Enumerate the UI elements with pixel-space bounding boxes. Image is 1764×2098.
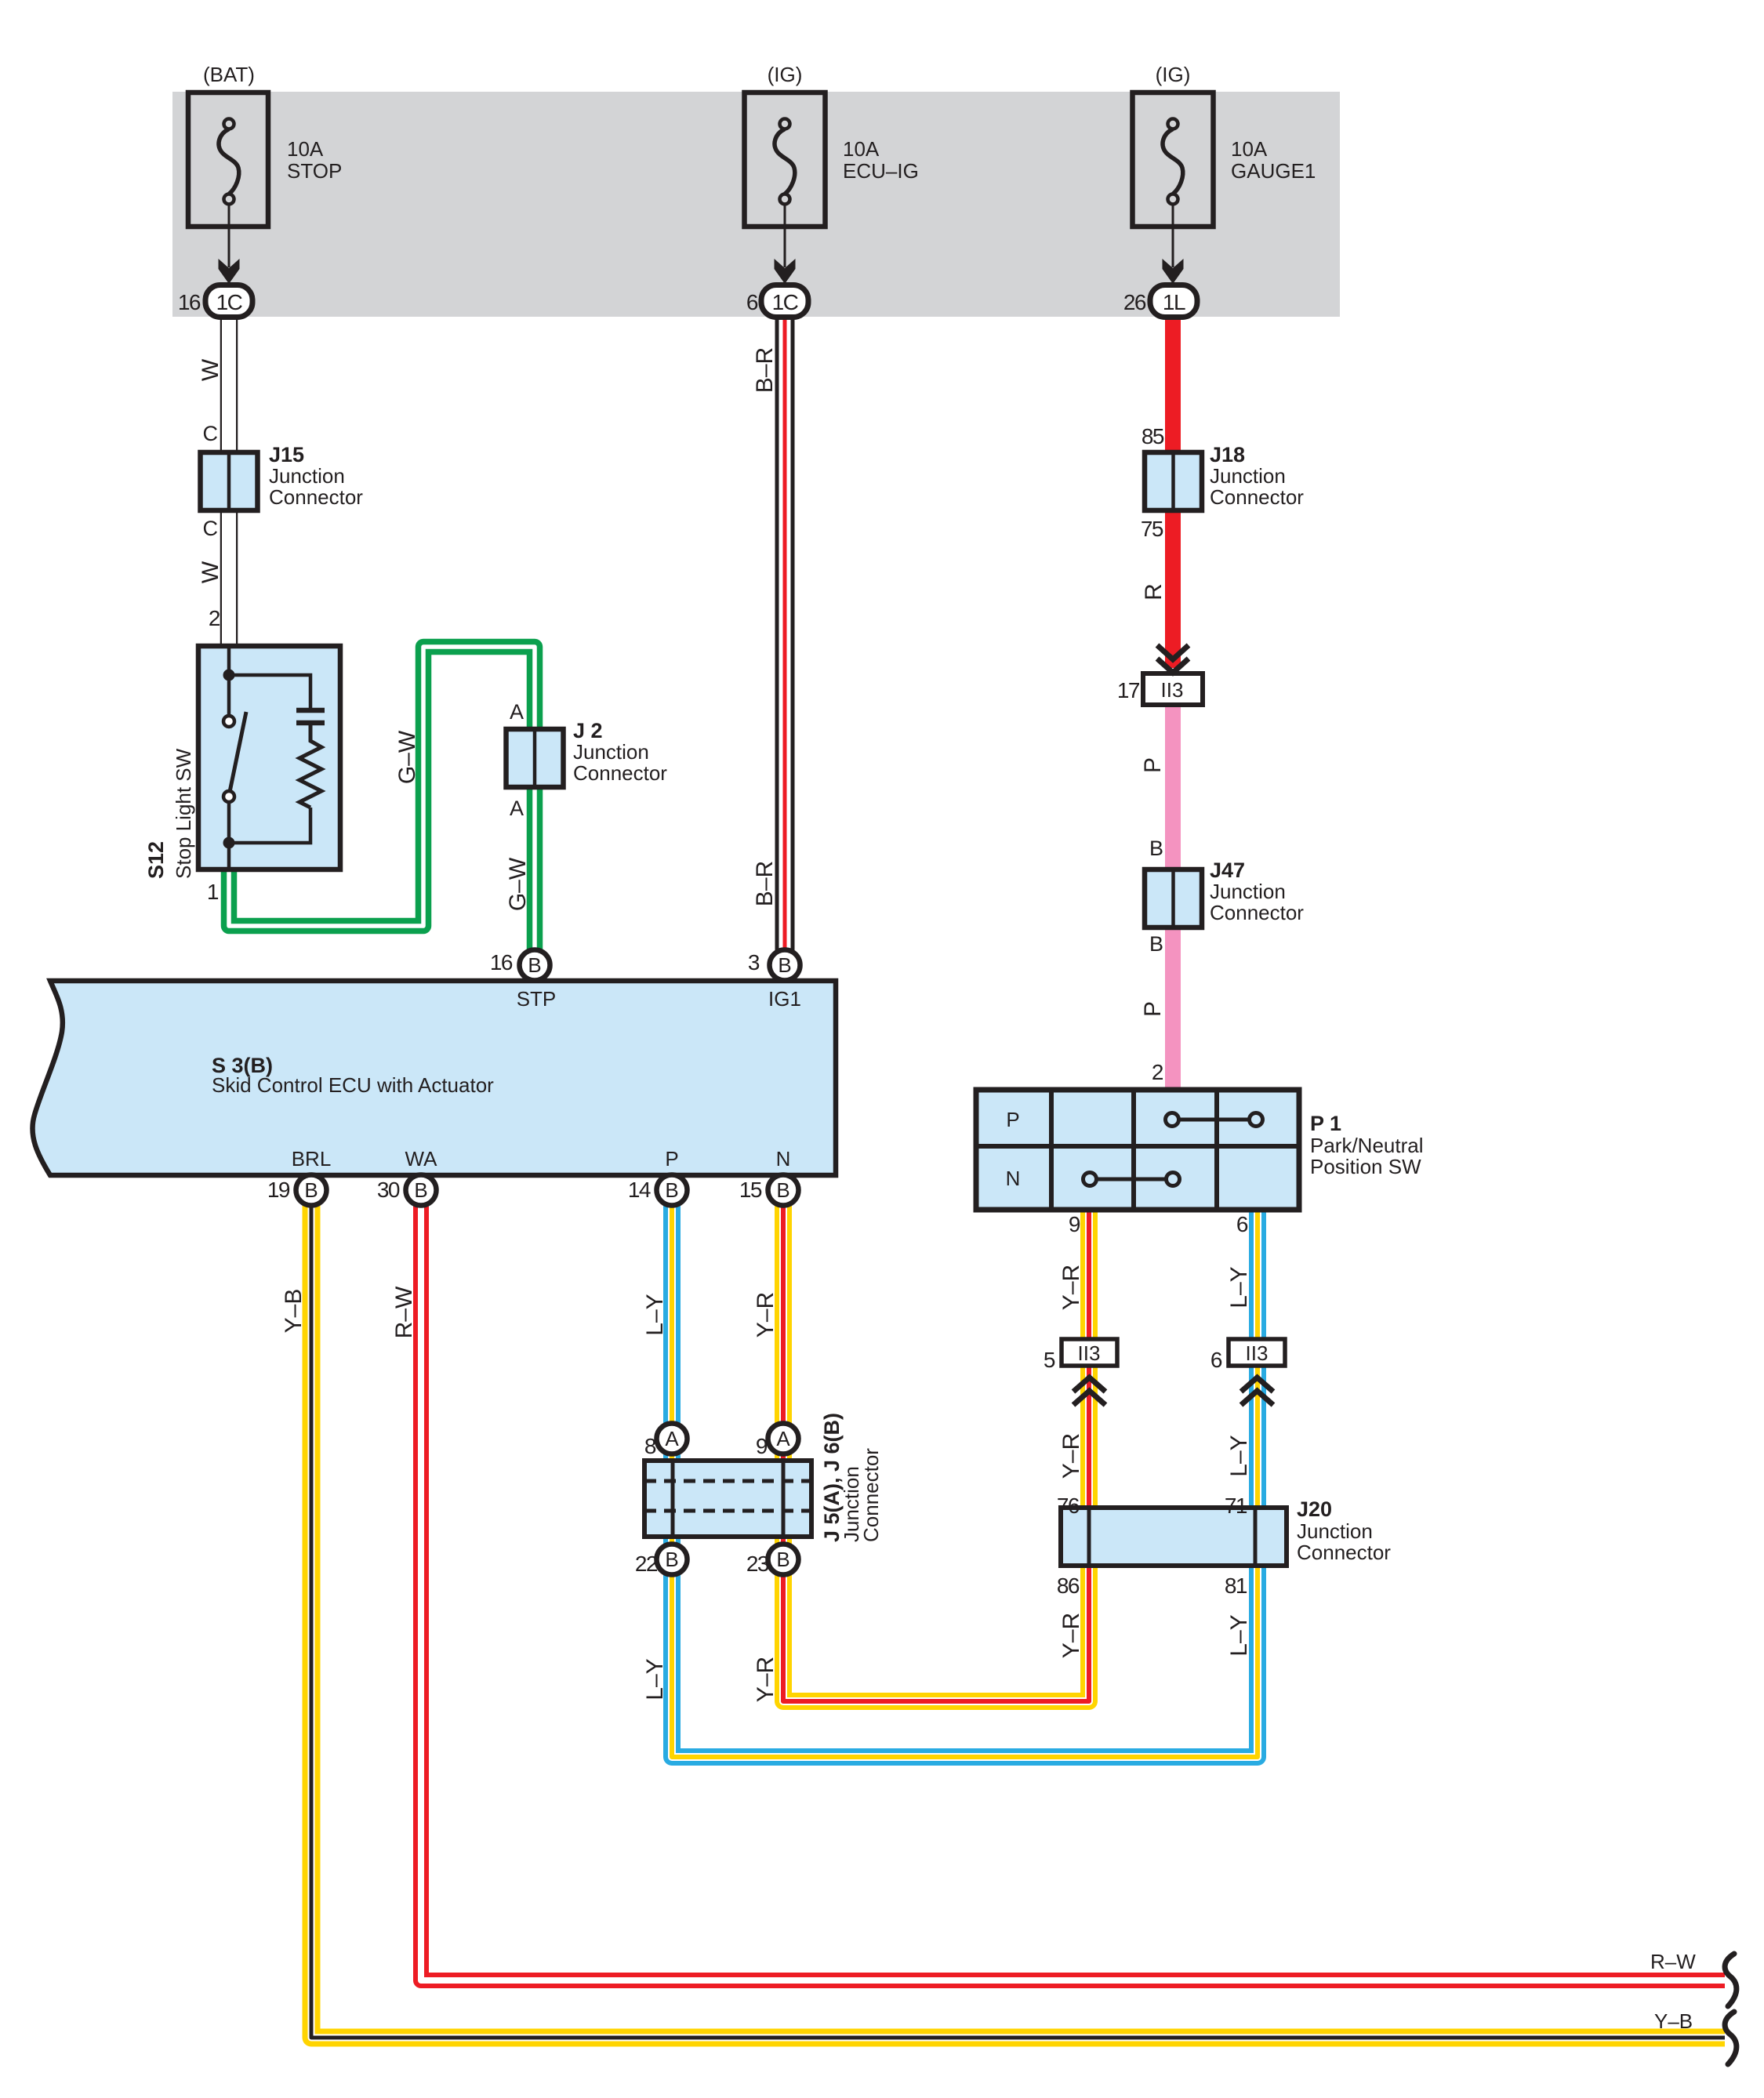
svg-text:B: B (778, 953, 791, 977)
ECU pin 15 N circle (768, 1175, 799, 1206)
svg-text:1L: 1L (1163, 290, 1185, 314)
svg-text:1C: 1C (772, 290, 799, 314)
svg-text:2: 2 (209, 606, 220, 630)
up chevrons below II3 5 (1073, 1377, 1105, 1405)
wire Y-R ECU pin 15 N via J5 9A/23B to J20 86 to II3 5 to P1 pin 9 (783, 1190, 1089, 1701)
arrow into 1C (16) (219, 259, 240, 284)
up chevrons below II3 6 (1241, 1377, 1273, 1405)
svg-text:9: 9 (1069, 1212, 1080, 1236)
svg-text:L–Y: L–Y (1226, 1435, 1252, 1476)
svg-text:B: B (665, 1548, 678, 1571)
wire G-W S12 pin 1 to ECU pin 16 STP via J2 (229, 647, 535, 965)
S12 switch contact bottom (223, 791, 234, 802)
svg-text:(IG): (IG) (768, 63, 803, 86)
stop light switch S12 box (198, 646, 340, 869)
wire Y-B ECU pin 19 BRL to bottom right (311, 1190, 1725, 2038)
svg-text:2: 2 (1152, 1060, 1163, 1084)
svg-text:WA: WA (405, 1147, 438, 1171)
svg-text:J 2: J 2 (573, 719, 603, 742)
svg-text:71: 71 (1225, 1494, 1247, 1518)
svg-text:Y–B: Y–B (1654, 2009, 1693, 2033)
S12 internal wire to pin 1 (227, 802, 231, 867)
svg-text:B: B (776, 1548, 789, 1571)
P1 contact N row (1083, 1173, 1180, 1186)
svg-text:8: 8 (644, 1434, 656, 1458)
svg-text:L–Y: L–Y (1226, 1614, 1252, 1656)
svg-text:Y–R: Y–R (1058, 1265, 1084, 1310)
II3 connector 5 box (1062, 1339, 1117, 1366)
ECU pin 19 BRL circle (296, 1175, 327, 1206)
svg-text:16: 16 (490, 950, 513, 975)
svg-text:R: R (1141, 583, 1167, 601)
J6 pin 23 B circle (768, 1544, 799, 1575)
svg-text:STP: STP (517, 987, 557, 1011)
S12 capacitor (296, 710, 325, 723)
svg-text:G–W: G–W (394, 730, 420, 784)
svg-text:B: B (414, 1178, 427, 1202)
arrow into 1L (26) (1163, 259, 1184, 284)
wire R (red) fuse GAUGE1 1L to II3 17 (1165, 314, 1181, 668)
fuse F2 10A ECU-IG (745, 93, 826, 267)
svg-text:P: P (665, 1147, 678, 1171)
svg-text:A: A (510, 700, 524, 724)
svg-text:76: 76 (1057, 1494, 1080, 1518)
svg-text:P 1: P 1 (1310, 1112, 1341, 1135)
svg-text:Junction: Junction (1210, 880, 1286, 903)
svg-text:II3: II3 (1078, 1341, 1101, 1365)
svg-text:Connector: Connector (269, 485, 363, 509)
svg-text:1: 1 (207, 880, 219, 904)
junction connector J47 (1145, 869, 1202, 927)
svg-text:L–Y: L–Y (642, 1658, 668, 1700)
svg-text:P: P (1140, 1001, 1166, 1017)
svg-text:10A: 10A (1231, 137, 1268, 161)
svg-text:6: 6 (1210, 1348, 1222, 1372)
svg-text:II3: II3 (1246, 1341, 1269, 1365)
svg-text:6: 6 (746, 290, 758, 314)
svg-text:BRL: BRL (292, 1147, 332, 1171)
svg-text:22: 22 (635, 1552, 658, 1576)
svg-text:Y–R: Y–R (753, 1657, 779, 1702)
ECU pin 14 P circle (657, 1175, 688, 1206)
svg-text:(BAT): (BAT) (203, 63, 255, 86)
svg-text:A: A (776, 1427, 790, 1450)
svg-text:N: N (776, 1147, 791, 1171)
Skid Control ECU S3(B) box (32, 981, 836, 1175)
svg-text:B: B (1149, 932, 1163, 956)
svg-text:Junction: Junction (1210, 464, 1286, 488)
svg-text:16: 16 (178, 290, 201, 314)
J5 pin 8 A circle (657, 1424, 688, 1454)
svg-text:86: 86 (1057, 1573, 1080, 1598)
S12 node dot top (223, 670, 235, 681)
svg-text:81: 81 (1225, 1573, 1247, 1598)
S12 resistor (299, 725, 321, 808)
svg-text:Junction: Junction (269, 464, 345, 488)
svg-text:30: 30 (377, 1178, 400, 1202)
park/neutral position switch P1 box (976, 1090, 1299, 1210)
wire B-R fuse ECU-IG 1C to ECU pin 3 IG1 (775, 314, 795, 965)
svg-text:19: 19 (267, 1178, 290, 1202)
svg-text:N: N (1006, 1167, 1021, 1190)
svg-text:L–Y: L–Y (1226, 1266, 1252, 1308)
junction connector J20 box (1061, 1508, 1287, 1566)
svg-text:75: 75 (1141, 517, 1163, 541)
S12 resistor branch top wire (229, 675, 310, 708)
svg-text:II3: II3 (1161, 678, 1184, 702)
svg-text:W: W (198, 358, 223, 381)
svg-text:J47: J47 (1210, 858, 1245, 882)
svg-text:Connector: Connector (573, 761, 667, 785)
svg-text:15: 15 (739, 1178, 762, 1202)
svg-text:G–W: G–W (505, 857, 531, 911)
svg-text:9: 9 (756, 1434, 768, 1458)
power rail gray band (172, 92, 1340, 317)
svg-text:Connector: Connector (859, 1448, 883, 1542)
svg-text:17: 17 (1117, 678, 1140, 702)
ECU pin 16 STP circle (520, 950, 550, 981)
svg-text:85: 85 (1142, 424, 1164, 448)
connector oval 1C pin 16 (205, 285, 252, 318)
svg-text:J15: J15 (269, 443, 304, 466)
svg-text:Connector: Connector (1210, 901, 1304, 924)
svg-text:L–Y: L–Y (642, 1294, 668, 1335)
svg-text:STOP: STOP (287, 159, 342, 183)
svg-text:Position SW: Position SW (1310, 1155, 1421, 1178)
svg-text:A: A (665, 1427, 679, 1450)
svg-text:Y–R: Y–R (1058, 1613, 1084, 1658)
P1 contact P row (1166, 1113, 1263, 1127)
svg-text:S12: S12 (144, 841, 168, 879)
junction connector J5(A) J6(B) block (644, 1461, 811, 1537)
svg-text:B: B (776, 1178, 789, 1202)
svg-text:10A: 10A (843, 137, 880, 161)
svg-text:Stop Light SW: Stop Light SW (172, 748, 195, 879)
wire P (pink) II3 17 to P1 pin 2 (1165, 705, 1181, 1090)
J6 pin 22 B circle (657, 1544, 688, 1575)
svg-text:23: 23 (746, 1552, 769, 1576)
svg-text:Y–R: Y–R (1058, 1433, 1084, 1479)
svg-text:Junction: Junction (573, 740, 649, 764)
fuse F3 10A GAUGE1 (1133, 93, 1214, 267)
svg-text:Connector: Connector (1297, 1541, 1391, 1564)
svg-text:B: B (304, 1178, 318, 1202)
connector oval 1L pin 26 (1150, 285, 1197, 318)
wire W (white) fuse STOP 1C to J15 to S12 pin 2 (220, 314, 238, 646)
svg-text:IG1: IG1 (768, 987, 801, 1011)
junction connector J15 (201, 452, 258, 510)
II3 connector 6 box (1229, 1339, 1285, 1366)
down chevrons into II3 17 (1157, 645, 1189, 673)
J5 pin 9 A circle (768, 1424, 799, 1454)
svg-text:R–W: R–W (1650, 1950, 1696, 1973)
svg-text:ECU–IG: ECU–IG (843, 159, 919, 183)
svg-text:14: 14 (628, 1178, 651, 1202)
junction connector J2 (506, 729, 564, 787)
svg-text:A: A (510, 797, 524, 820)
harness continuation squiggle R-W (1725, 1954, 1737, 2006)
svg-text:W: W (198, 561, 223, 583)
svg-text:10A: 10A (287, 137, 324, 161)
ECU pin 30 WA circle (406, 1175, 437, 1206)
svg-text:Junction: Junction (1297, 1519, 1373, 1543)
svg-text:26: 26 (1123, 290, 1146, 314)
svg-text:B–R: B–R (752, 347, 778, 393)
svg-text:Y–B: Y–B (281, 1289, 307, 1334)
svg-text:GAUGE1: GAUGE1 (1231, 159, 1316, 183)
svg-text:1C: 1C (216, 290, 243, 314)
svg-text:J20: J20 (1297, 1497, 1332, 1521)
svg-text:(IG): (IG) (1156, 63, 1191, 86)
svg-text:P: P (1006, 1108, 1019, 1131)
svg-text:6: 6 (1236, 1212, 1248, 1236)
harness continuation squiggle Y-B (1725, 2012, 1737, 2064)
svg-text:Connector: Connector (1210, 485, 1304, 509)
svg-text:R–W: R–W (391, 1286, 417, 1338)
svg-text:C: C (203, 422, 219, 445)
S12 node dot bottom (223, 837, 235, 849)
svg-text:5: 5 (1044, 1348, 1055, 1372)
wire R-W ECU pin 30 WA to bottom right (421, 1190, 1725, 1980)
junction connector J18 (1145, 452, 1202, 510)
svg-text:B–R: B–R (752, 861, 778, 906)
connector oval 1C pin 6 (761, 285, 808, 318)
svg-text:B: B (528, 953, 541, 977)
svg-text:Y–R: Y–R (753, 1292, 779, 1338)
svg-text:3: 3 (748, 950, 760, 975)
S12 internal wire from pin 2 (227, 648, 231, 716)
arrow into 1C (6) (775, 259, 796, 284)
svg-text:Skid Control ECU with Actuator: Skid Control ECU with Actuator (212, 1073, 494, 1097)
svg-text:C: C (203, 517, 219, 540)
fuse F1 10A STOP (188, 93, 268, 267)
svg-text:B: B (665, 1178, 678, 1202)
II3 connector 17 box (1143, 673, 1203, 705)
svg-text:B: B (1149, 837, 1163, 860)
svg-text:Park/Neutral: Park/Neutral (1310, 1134, 1424, 1157)
svg-text:J18: J18 (1210, 443, 1245, 466)
wire L-Y ECU pin 14 P via J5 8A/22B to J20 81 to II3 6 to P1 pin 6 (672, 1190, 1258, 1757)
S12 switch blade (230, 712, 246, 792)
S12 switch contact top (223, 716, 234, 727)
S12 resistor branch bottom wire (229, 808, 310, 843)
ECU pin 3 IG1 circle (770, 950, 800, 981)
svg-text:P: P (1140, 757, 1166, 773)
